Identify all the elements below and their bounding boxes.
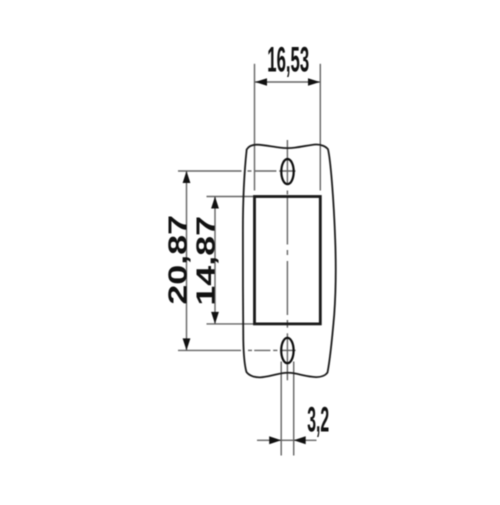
svg-text:20,87: 20,87 — [163, 215, 192, 305]
dimension line 3,2 middle — [281, 439, 294, 441]
dimension line 20,87 — [186, 171, 188, 350]
extension line left of cutout width dim — [254, 64, 256, 191]
centerline bottom slot (horizontal dash-dot) — [178, 349, 296, 351]
svg-text:16,53: 16,53 — [267, 40, 309, 80]
svg-text:3,2: 3,2 — [307, 399, 329, 439]
arrowhead bottom 20,87 — [183, 338, 191, 350]
svg-text:14,87: 14,87 — [191, 216, 220, 306]
extension line top of 14,87 — [207, 196, 254, 198]
arrowhead top 14,87 — [211, 197, 219, 209]
vertical centerline (dash-dot) — [286, 140, 288, 380]
dimension line 14,87 — [214, 197, 216, 324]
top slot hole — [281, 159, 293, 184]
arrowhead right 16,53 — [308, 78, 320, 86]
extension line right of cutout width dim — [319, 64, 321, 191]
rectangular cutout — [255, 197, 321, 324]
dimension line 3,2 left tail — [257, 439, 281, 441]
mounting plate outline (broken-view wavy edges) — [243, 144, 336, 377]
arrowhead left 3,2 (points right) — [269, 436, 281, 444]
extension line left of slot width dim — [280, 362, 282, 456]
dimension line 16,53 — [255, 81, 320, 83]
extension line bottom of 14,87 — [207, 323, 254, 325]
dimension line 3,2 right tail — [294, 439, 317, 441]
centerline top slot (horizontal dash-dot) — [178, 170, 296, 172]
extension line right of slot width dim — [293, 362, 295, 456]
arrowhead bottom 14,87 — [211, 312, 219, 324]
arrowhead left 16,53 — [255, 78, 267, 86]
bottom slot hole — [281, 338, 293, 363]
arrowhead top 20,87 — [183, 171, 191, 183]
arrowhead right 3,2 (points left) — [294, 436, 306, 444]
